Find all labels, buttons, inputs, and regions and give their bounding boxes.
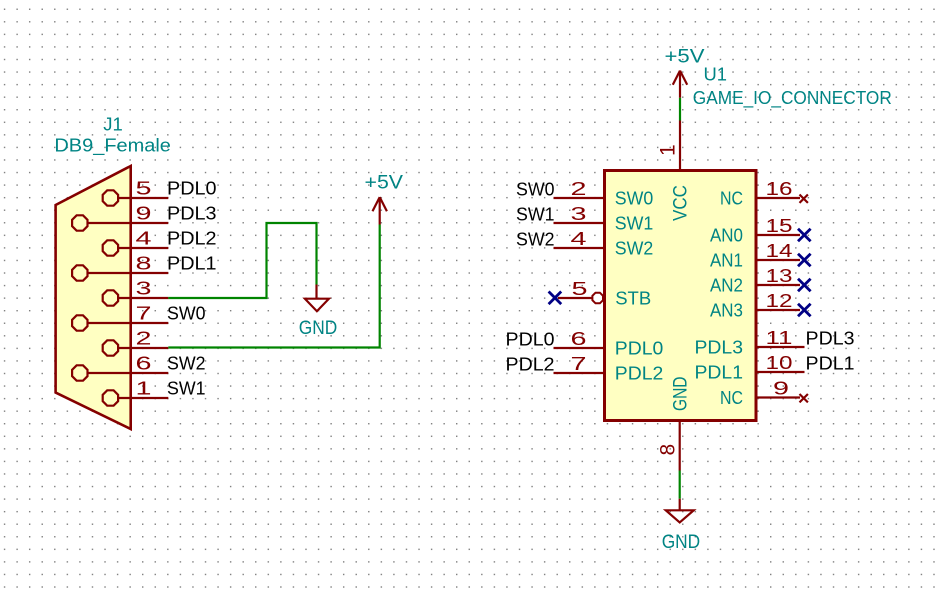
svg-text:SW1: SW1 [516,204,555,225]
svg-text:PDL3: PDL3 [167,203,217,224]
svg-text:PDL2: PDL2 [506,354,555,375]
svg-text:GAME_IO_CONNECTOR: GAME_IO_CONNECTOR [693,87,892,109]
svg-text:+5V: +5V [365,172,404,194]
svg-text:1: 1 [656,144,679,156]
svg-text:PDL0: PDL0 [615,337,664,358]
svg-text:5: 5 [572,278,588,299]
svg-text:SW0: SW0 [167,303,206,324]
svg-text:AN1: AN1 [710,249,743,270]
svg-text:6: 6 [571,328,587,349]
svg-text:U1: U1 [704,63,728,84]
svg-text:SW1: SW1 [615,212,654,233]
svg-text:SW1: SW1 [167,378,206,399]
svg-text:SW2: SW2 [516,229,555,250]
svg-text:+5V: +5V [665,45,705,67]
svg-text:11: 11 [766,327,793,348]
svg-text:9: 9 [136,203,152,224]
svg-text:PDL1: PDL1 [695,361,744,382]
svg-text:PDL3: PDL3 [695,336,744,357]
svg-text:PDL3: PDL3 [806,328,855,349]
svg-text:PDL2: PDL2 [615,362,664,383]
svg-text:SW0: SW0 [615,187,654,208]
svg-text:NC: NC [720,387,743,408]
svg-text:14: 14 [766,240,793,261]
svg-text:DB9_Female: DB9_Female [54,135,171,157]
svg-text:PDL1: PDL1 [806,353,855,374]
svg-text:2: 2 [571,178,587,199]
svg-text:STB: STB [615,287,651,308]
svg-text:PDL0: PDL0 [167,178,217,199]
svg-text:GND: GND [669,377,691,412]
svg-text:SW0: SW0 [516,179,555,200]
svg-text:10: 10 [766,352,793,373]
svg-text:2: 2 [136,328,152,349]
svg-text:6: 6 [136,353,152,374]
svg-text:13: 13 [766,265,793,286]
svg-text:AN2: AN2 [710,274,743,295]
svg-text:7: 7 [136,303,152,324]
svg-text:7: 7 [571,353,587,374]
svg-text:AN3: AN3 [710,299,743,320]
svg-text:3: 3 [136,278,152,299]
svg-text:SW2: SW2 [167,353,206,374]
svg-text:AN0: AN0 [710,224,743,245]
svg-text:PDL1: PDL1 [167,253,217,274]
svg-text:PDL2: PDL2 [167,228,217,249]
svg-text:J1: J1 [103,114,123,135]
svg-text:12: 12 [766,290,793,311]
svg-text:4: 4 [571,228,587,249]
svg-text:PDL0: PDL0 [506,329,555,350]
svg-text:NC: NC [720,187,743,208]
svg-text:16: 16 [766,178,793,199]
svg-text:GND: GND [299,317,338,339]
svg-text:GND: GND [662,531,701,553]
svg-text:1: 1 [136,378,152,399]
svg-text:8: 8 [656,444,679,456]
svg-text:5: 5 [136,178,152,199]
svg-text:9: 9 [773,378,789,399]
svg-text:4: 4 [136,228,152,249]
svg-text:15: 15 [766,215,793,236]
svg-text:3: 3 [571,203,587,224]
svg-text:SW2: SW2 [615,237,654,258]
svg-text:8: 8 [136,253,152,274]
svg-text:VCC: VCC [669,185,691,221]
